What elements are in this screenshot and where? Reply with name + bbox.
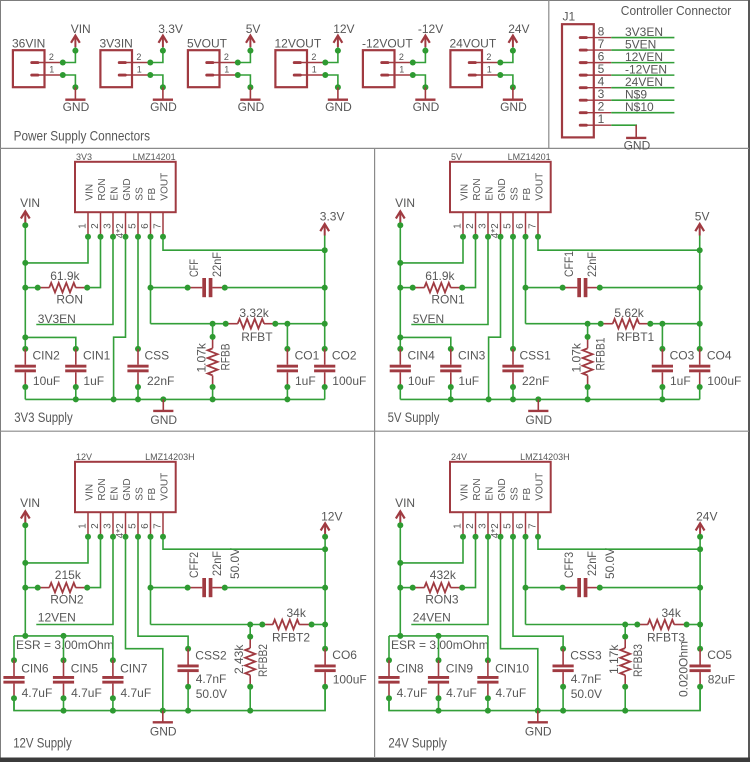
svg-text:GND: GND [63, 100, 90, 114]
capacitor CIN4 (5V Supply) [397, 346, 403, 352]
junction rail GND symbol (3V3 Supply) [160, 396, 166, 402]
wire pin5 SS to CSS (3V3 Supply) [137, 237, 139, 349]
wire net 5VEN [611, 49, 674, 51]
svg-text:100uF: 100uF [707, 374, 741, 388]
junction GND 12VOUT [335, 84, 341, 90]
capacitor CO2 (3V3 Supply) [322, 346, 328, 352]
supply symbol 3.3V (3V3 Supply) [320, 224, 329, 236]
wire VIN to CIN3 (5V Supply) [400, 337, 451, 349]
wire CIN6 top lead (12V Supply) [13, 636, 15, 660]
ground symbol (3V3 Supply) [153, 399, 173, 411]
supply symbol 3.3V [159, 36, 168, 48]
svg-text:34k: 34k [287, 606, 307, 620]
svg-text:GND: GND [122, 478, 133, 500]
wire pin4 GND to rail (12V Supply) [126, 537, 163, 711]
wire CIN2 to rail (3V3 Supply) [24, 387, 26, 399]
wire 5V rail (5V Supply) [699, 236, 701, 349]
junction GND 24VOUT [510, 84, 516, 90]
connector -12VOUT body [363, 50, 413, 87]
capacitor CIN2 (3V3 Supply) [22, 346, 28, 352]
junction rail RFBB3 (24V Supply) [622, 708, 628, 714]
svg-text:100uF: 100uF [333, 673, 367, 687]
svg-text:0.020Ohm: 0.020Ohm [676, 641, 690, 697]
svg-text:1: 1 [598, 112, 605, 126]
wire VIN to pin1 (24V Supply) [400, 537, 463, 563]
junction pin2 5VOUT [235, 60, 241, 66]
wire VIN rail (24V Supply) [399, 523, 401, 636]
junction rail CIN1 (3V3 Supply) [73, 396, 79, 402]
wire CIN8 to rail (24V Supply) [388, 698, 390, 710]
wire CIN3 to rail (5V Supply) [450, 387, 452, 399]
svg-text:5.62k: 5.62k [614, 306, 644, 320]
junction VIN arrow (12V Supply) [22, 522, 28, 528]
svg-text:RFBT2: RFBT2 [272, 630, 310, 644]
resistor RFBB2 2.43k (12V Supply) [245, 625, 255, 687]
junction GND -12VOUT [422, 84, 428, 90]
junction 5V arrow base [247, 48, 253, 54]
svg-text:LMZ14201: LMZ14201 [133, 152, 176, 162]
IC U3 pin numbers (12V Supply) [77, 523, 163, 538]
svg-text:1uF: 1uF [83, 374, 104, 388]
wire RFBB1 to rail (5V Supply) [587, 387, 589, 399]
connector 12VOUT body [275, 50, 325, 87]
junction ESR/VIN rail (24V Supply) [397, 633, 403, 639]
wire CIN6 to rail (12V Supply) [13, 698, 15, 710]
junction rail pin4 (5V Supply) [486, 396, 492, 402]
svg-text:EN: EN [484, 487, 495, 501]
svg-text:1: 1 [312, 64, 317, 74]
junction VIN/RON1 (5V Supply) [397, 285, 403, 291]
junction GND 36VIN [72, 84, 78, 90]
svg-text:CIN2: CIN2 [33, 348, 61, 362]
svg-text:GND: GND [150, 100, 177, 114]
svg-text:SS: SS [134, 487, 145, 501]
capacitor CIN5 (12V Supply) [61, 657, 67, 663]
junction rail CIN7 (12V Supply) [110, 708, 116, 714]
junction VIN arrow (24V Supply) [397, 522, 403, 528]
wire pin4 GND to rail (5V Supply) [489, 237, 501, 400]
resistor RFBT 3.32k (3V3 Supply) [226, 319, 276, 329]
junction CFF1 pin2 (5V Supply) [597, 285, 603, 291]
junction VIN caps (3V3 Supply) [22, 334, 28, 340]
svg-text:5: 5 [127, 523, 138, 529]
svg-text:7: 7 [527, 523, 538, 529]
wire pin2 to -12V [413, 51, 426, 63]
wire pin1 to GND [63, 75, 76, 87]
capacitor CFF (3V3 Supply) [188, 278, 225, 297]
wire CIN5 to rail (12V Supply) [63, 698, 65, 710]
wire VIN to pin1 (12V Supply) [25, 537, 88, 563]
wire FB to CFF1 (5V Supply) [526, 287, 563, 289]
svg-text:1uF: 1uF [458, 374, 479, 388]
wire VIN to pin1 (5V Supply) [400, 237, 463, 263]
wire CIN1 to rail (3V3 Supply) [75, 387, 77, 399]
supply symbol 5V (5V Supply) [695, 224, 704, 236]
ground symbol 5VOUT [240, 87, 260, 99]
wire RFBT2 to VOUT rail (12V Supply) [312, 624, 326, 626]
wire pin4 GND to rail (24V Supply) [501, 537, 538, 711]
svg-text:2: 2 [90, 523, 101, 529]
svg-text:VIN: VIN [84, 184, 95, 201]
svg-text:CSS1: CSS1 [520, 348, 552, 362]
svg-text:CIN5: CIN5 [71, 661, 99, 675]
junction rail pin4/GND symbol (24V Supply) [535, 708, 541, 714]
svg-text:CO2: CO2 [332, 348, 357, 362]
junction RFBT pin2 (3V3 Supply) [272, 321, 278, 327]
junction pin2 36VIN [60, 60, 66, 66]
svg-text:82uF: 82uF [708, 673, 735, 687]
svg-text:10uF: 10uF [33, 374, 60, 388]
svg-text:RFBB1: RFBB1 [593, 337, 607, 370]
svg-text:GND: GND [150, 413, 177, 427]
junction FB row/rail (24V Supply) [697, 622, 703, 628]
svg-text:CIN10: CIN10 [495, 661, 529, 675]
svg-text:LMZ14201: LMZ14201 [508, 152, 551, 162]
supply symbol VIN (5V Supply) [396, 211, 405, 223]
svg-text:CO4: CO4 [707, 348, 732, 362]
junction rail CO3 (5V Supply) [659, 396, 665, 402]
wire pin7 VOUT to rail (3V3 Supply) [163, 237, 325, 250]
capacitor CO1 (3V3 Supply) [284, 346, 290, 352]
wire net 24VEN [611, 87, 674, 89]
wire CSS2 to rail (12V Supply) [187, 687, 189, 711]
svg-text:VIN: VIN [395, 496, 415, 510]
resistor RFBB3 1.17k (24V Supply) [620, 625, 630, 687]
svg-text:CIN1: CIN1 [83, 348, 111, 362]
resistor RON2 215k (12V Supply) [38, 583, 87, 593]
svg-text:3V3EN: 3V3EN [38, 312, 76, 326]
svg-text:RON3: RON3 [425, 592, 459, 606]
junction RFBB1 pin2 (5V Supply) [585, 384, 591, 390]
capacitor CSS3 (24V Supply) [560, 646, 566, 652]
junction RFBT pin1 (3V3 Supply) [223, 321, 229, 327]
svg-text:432k: 432k [430, 568, 457, 582]
wire GND rail (3V3 Supply) [25, 398, 324, 400]
junction rail pin4 (3V3 Supply) [111, 396, 117, 402]
junction CFF pin2 (3V3 Supply) [222, 285, 228, 291]
resistor RON1 61.9k (5V Supply) [413, 283, 463, 293]
svg-text:12V: 12V [333, 22, 354, 36]
ground symbol (24V Supply) [528, 711, 548, 723]
junction FB/RFBB2 (12V Supply) [247, 622, 253, 628]
svg-text:2: 2 [399, 52, 404, 62]
capacitor CSS (3V3 Supply) [135, 346, 141, 352]
svg-text:RFBB: RFBB [218, 344, 232, 371]
svg-text:4.7uF: 4.7uF [121, 686, 152, 700]
wire CO4 to rail (5V Supply) [699, 387, 701, 399]
wire pin5 SS to CSS2 (12V Supply) [138, 537, 188, 649]
svg-text:6: 6 [140, 523, 151, 529]
svg-text:VOUT: VOUT [534, 173, 545, 201]
junction RFBT3 pin1 (24V Supply) [634, 622, 640, 628]
wire pin6 FB down (12V Supply) [150, 537, 152, 625]
capacitor CIN10 (24V Supply) [485, 657, 491, 663]
wire pin2 to 12V [325, 51, 338, 63]
svg-text:N$10: N$10 [625, 100, 654, 114]
svg-text:VIN: VIN [20, 496, 40, 510]
svg-text:CO3: CO3 [670, 348, 695, 362]
svg-text:RFBB3: RFBB3 [631, 644, 645, 677]
wire CFF1 to VOUT rail (5V Supply) [600, 287, 700, 289]
junction FB/RFBB3 (24V Supply) [622, 622, 628, 628]
svg-text:CSS: CSS [145, 348, 170, 362]
wire CO1 to rail (3V3 Supply) [286, 387, 288, 399]
wire pin1 to GND [238, 75, 251, 87]
svg-text:50.0V: 50.0V [228, 548, 242, 579]
junction rail CSS (3V3 Supply) [135, 396, 141, 402]
svg-text:7: 7 [527, 223, 538, 229]
op-amp/regulator IC U4 body (24V Supply) [450, 462, 551, 512]
capacitor CIN7 (12V Supply) [110, 657, 116, 663]
junction pin1 3V3IN [147, 72, 153, 78]
wire RFBB3 to rail (24V Supply) [624, 687, 626, 711]
svg-text:24V: 24V [451, 452, 467, 462]
wire CFF to VOUT rail (3V3 Supply) [225, 287, 325, 289]
svg-text:VIN: VIN [459, 484, 470, 501]
svg-text:3: 3 [477, 523, 488, 529]
resistor RFBT3 34k (24V Supply) [637, 620, 686, 630]
svg-text:CIN8: CIN8 [396, 661, 424, 675]
svg-text:4.7uF: 4.7uF [496, 686, 527, 700]
wire net 12VEN (12V Supply) [36, 537, 113, 625]
svg-text:1uF: 1uF [295, 374, 316, 388]
svg-text:2: 2 [465, 223, 476, 229]
junction RON2 pin2 (12V Supply) [84, 585, 90, 591]
resistor RFBB1 1.07k (5V Supply) [583, 324, 593, 387]
svg-text:RON2: RON2 [50, 592, 84, 606]
svg-text:4.7uF: 4.7uF [397, 686, 428, 700]
svg-text:J1: J1 [563, 10, 576, 24]
wire CIN4 to rail (5V Supply) [399, 387, 401, 399]
wire FB to CFF (3V3 Supply) [151, 287, 188, 289]
svg-text:1uF: 1uF [670, 374, 691, 388]
wire CSS1 to rail (5V Supply) [512, 387, 514, 399]
svg-text:2: 2 [49, 52, 54, 62]
op-amp/regulator IC U1 body (3V3 Supply) [75, 162, 176, 212]
svg-text:GND: GND [525, 724, 552, 738]
svg-text:FB: FB [147, 187, 158, 200]
junction rail pin4/GND symbol (12V Supply) [160, 708, 166, 714]
capacitor CO6 (12V Supply) [322, 646, 328, 652]
resistor RON3 432k (24V Supply) [413, 583, 463, 593]
svg-text:5: 5 [502, 523, 513, 529]
junction CFF1/rail (5V Supply) [697, 285, 703, 291]
capacitor CFF2 (12V Supply) [188, 578, 225, 597]
svg-text:VIN: VIN [71, 22, 91, 36]
svg-text:CIN6: CIN6 [21, 661, 49, 675]
wire CIN7 to rail (12V Supply) [112, 698, 114, 710]
svg-text:3.3V: 3.3V [158, 22, 183, 36]
IC U3 pin leads (12V Supply) [88, 512, 163, 537]
junction pin1 12VOUT [322, 72, 328, 78]
ground symbol (5V Supply) [528, 399, 548, 411]
wire pin1 to GND [150, 75, 163, 87]
wire net 3V3EN (3V3 Supply) [36, 237, 113, 325]
svg-text:12VEN: 12VEN [38, 610, 76, 624]
wire VIN rail (3V3 Supply) [24, 223, 26, 349]
svg-text:CFF1: CFF1 [562, 251, 576, 277]
svg-text:5V: 5V [246, 22, 261, 36]
junction CFF3/rail (24V Supply) [697, 585, 703, 591]
svg-text:1: 1 [137, 64, 142, 74]
junction RFBB3 pin1 (24V Supply) [622, 634, 628, 640]
junction CFF2 pin2 (12V Supply) [222, 585, 228, 591]
capacitor CIN9 (24V Supply) [436, 657, 442, 663]
supply symbol 5V [246, 36, 255, 48]
svg-text:3: 3 [102, 523, 113, 529]
svg-text:3V3: 3V3 [76, 152, 92, 162]
junction pin2 24VOUT [497, 60, 503, 66]
svg-text:3: 3 [102, 223, 113, 229]
wire 12V rail (12V Supply) [324, 535, 326, 650]
svg-text:22nF: 22nF [522, 374, 549, 388]
svg-text:Power Supply Connectors: Power Supply Connectors [14, 128, 150, 144]
junction GND 3V3IN [160, 84, 166, 90]
supply symbol VIN (24V Supply) [396, 511, 405, 523]
junction ESR/CIN9 (24V Supply) [436, 633, 442, 639]
svg-text:GND: GND [624, 138, 651, 152]
svg-text:12V: 12V [76, 452, 92, 462]
svg-text:GND: GND [497, 478, 508, 500]
junction VIN arrow base [72, 48, 78, 54]
wire pin5 SS to CSS3 (24V Supply) [513, 537, 563, 649]
wire to CO1 (3V3 Supply) [286, 324, 288, 349]
svg-text:3.3V: 3.3V [320, 209, 345, 223]
svg-text:4.7uF: 4.7uF [71, 686, 102, 700]
svg-text:36VIN: 36VIN [12, 37, 45, 51]
svg-text:CSS3: CSS3 [570, 648, 602, 662]
IC U3 pin junctions (12V Supply) [85, 534, 166, 540]
svg-text:4.7uF: 4.7uF [22, 686, 53, 700]
capacitor CSS1 (5V Supply) [510, 346, 516, 352]
wire VIN to RON3 (24V Supply) [400, 587, 412, 589]
svg-text:5: 5 [502, 223, 513, 229]
wire net -12VEN [611, 74, 674, 76]
wire GND rail (24V Supply) [389, 687, 700, 711]
junction -12V arrow base [422, 48, 428, 54]
svg-text:2: 2 [311, 52, 316, 62]
wire pin7 VOUT to rail (24V Supply) [538, 537, 700, 549]
svg-text:50.0V: 50.0V [196, 687, 227, 701]
junction CFF2/rail (12V Supply) [322, 585, 328, 591]
svg-text:1: 1 [77, 523, 88, 529]
junction VOUT line/CO3 (5V Supply) [659, 321, 665, 327]
junction FB row/rail (12V Supply) [322, 622, 328, 628]
op-amp/regulator IC U3 body (12V Supply) [75, 462, 176, 512]
wire CIN10 top lead (24V Supply) [487, 636, 489, 660]
junction pin1 -12VOUT [410, 72, 416, 78]
svg-text:SS: SS [509, 187, 520, 201]
junction 3.3V arrow base [160, 48, 166, 54]
svg-text:24VEN: 24VEN [413, 610, 451, 624]
IC U1 pin leads (3V3 Supply) [88, 212, 163, 237]
resistor RON 61.9k (3V3 Supply) [38, 283, 87, 293]
svg-text:LMZ14203H: LMZ14203H [520, 452, 570, 462]
wire CIN10 to rail (24V Supply) [487, 698, 489, 710]
capacitor CSS2 (12V Supply) [185, 646, 191, 652]
svg-text:1.07k: 1.07k [570, 342, 584, 372]
svg-text:5VEN: 5VEN [413, 312, 444, 326]
svg-text:1: 1 [452, 523, 463, 529]
junction RON1 pin1 (5V Supply) [410, 285, 416, 291]
junction RFBT2 pin2 (12V Supply) [309, 622, 315, 628]
capacitor CO4 (5V Supply) [697, 346, 703, 352]
junction FB row/rail (5V Supply) [697, 321, 703, 327]
capacitor CFF1 (5V Supply) [563, 278, 600, 297]
junction RFBB pin1 (3V3 Supply) [210, 334, 216, 340]
svg-text:SS: SS [509, 487, 520, 501]
junction RFBT2 pin1 (12V Supply) [259, 622, 265, 628]
wire pin7 VOUT to rail (5V Supply) [538, 237, 700, 250]
junction VIN/RON3 (24V Supply) [397, 585, 403, 591]
wire VIN rail (12V Supply) [24, 523, 26, 636]
junction rail CSS2 (12V Supply) [185, 708, 191, 714]
junction rail RFBB1 (5V Supply) [585, 396, 591, 402]
svg-text:VIN: VIN [459, 184, 470, 201]
junction rail CIN10 (24V Supply) [485, 708, 491, 714]
svg-text:2: 2 [224, 52, 229, 62]
junction VOUT row (5V Supply) [697, 247, 703, 253]
junction RON2 pin1 (12V Supply) [35, 585, 41, 591]
junction 12V arrow (12V Supply) [322, 534, 328, 540]
svg-text:3V3 Supply: 3V3 Supply [14, 410, 73, 425]
wire RFBT1 to VOUT rail (5V Supply) [650, 323, 699, 325]
wire VIN to RON (3V3 Supply) [25, 287, 37, 289]
connector 5VOUT body [188, 50, 238, 87]
svg-text:GND: GND [238, 100, 265, 114]
junction VIN arrow (3V3 Supply) [22, 222, 28, 228]
svg-text:6: 6 [515, 523, 526, 529]
junction 24V arrow base [510, 48, 516, 54]
junction RFBT3 pin2 (24V Supply) [684, 622, 690, 628]
junction VIN/RON (3V3 Supply) [22, 285, 28, 291]
svg-text:CO5: CO5 [707, 648, 732, 662]
svg-text:2: 2 [486, 52, 491, 62]
junction RON pin2 (3V3 Supply) [84, 285, 90, 291]
junction rail CIN9 (24V Supply) [436, 708, 442, 714]
capacitor CIN6 (12V Supply) [11, 657, 17, 663]
supply symbol VIN [71, 36, 80, 48]
wire pin6 FB down (5V Supply) [525, 237, 527, 324]
svg-text:EN: EN [109, 187, 120, 201]
junction FB/RFBB1 (5V Supply) [585, 321, 591, 327]
svg-text:10uF: 10uF [408, 374, 435, 388]
wire GND rail (5V Supply) [400, 398, 699, 400]
junction rail CO1 (3V3 Supply) [284, 396, 290, 402]
capacitor CIN8 (24V Supply) [386, 657, 392, 663]
svg-text:GND: GND [150, 724, 177, 738]
junction RON pin1 (3V3 Supply) [35, 285, 41, 291]
svg-text:2: 2 [465, 523, 476, 529]
svg-text:2.43k: 2.43k [232, 644, 246, 674]
IC U2 pin numbers (5V Supply) [452, 223, 538, 238]
junction rail GND symbol (5V Supply) [535, 396, 541, 402]
svg-text:VIN: VIN [395, 196, 415, 210]
svg-text:50.0V: 50.0V [603, 548, 617, 579]
ground symbol (12V Supply) [153, 711, 173, 723]
junction FB/CFF1 (5V Supply) [523, 285, 529, 291]
supply symbol VIN (12V Supply) [21, 511, 30, 523]
ground symbol 36VIN [65, 87, 85, 99]
svg-text:22nF: 22nF [210, 252, 224, 277]
svg-text:LMZ14203H: LMZ14203H [145, 452, 195, 462]
wire net 24VEN (24V Supply) [411, 537, 488, 625]
connector 24VOUT body [450, 50, 500, 87]
wire pin2 to 24V [500, 51, 513, 63]
junction ESR/CIN5 (12V Supply) [61, 633, 67, 639]
junction CFF/rail (3V3 Supply) [322, 285, 328, 291]
junction FB/CFF3 (24V Supply) [523, 585, 529, 591]
